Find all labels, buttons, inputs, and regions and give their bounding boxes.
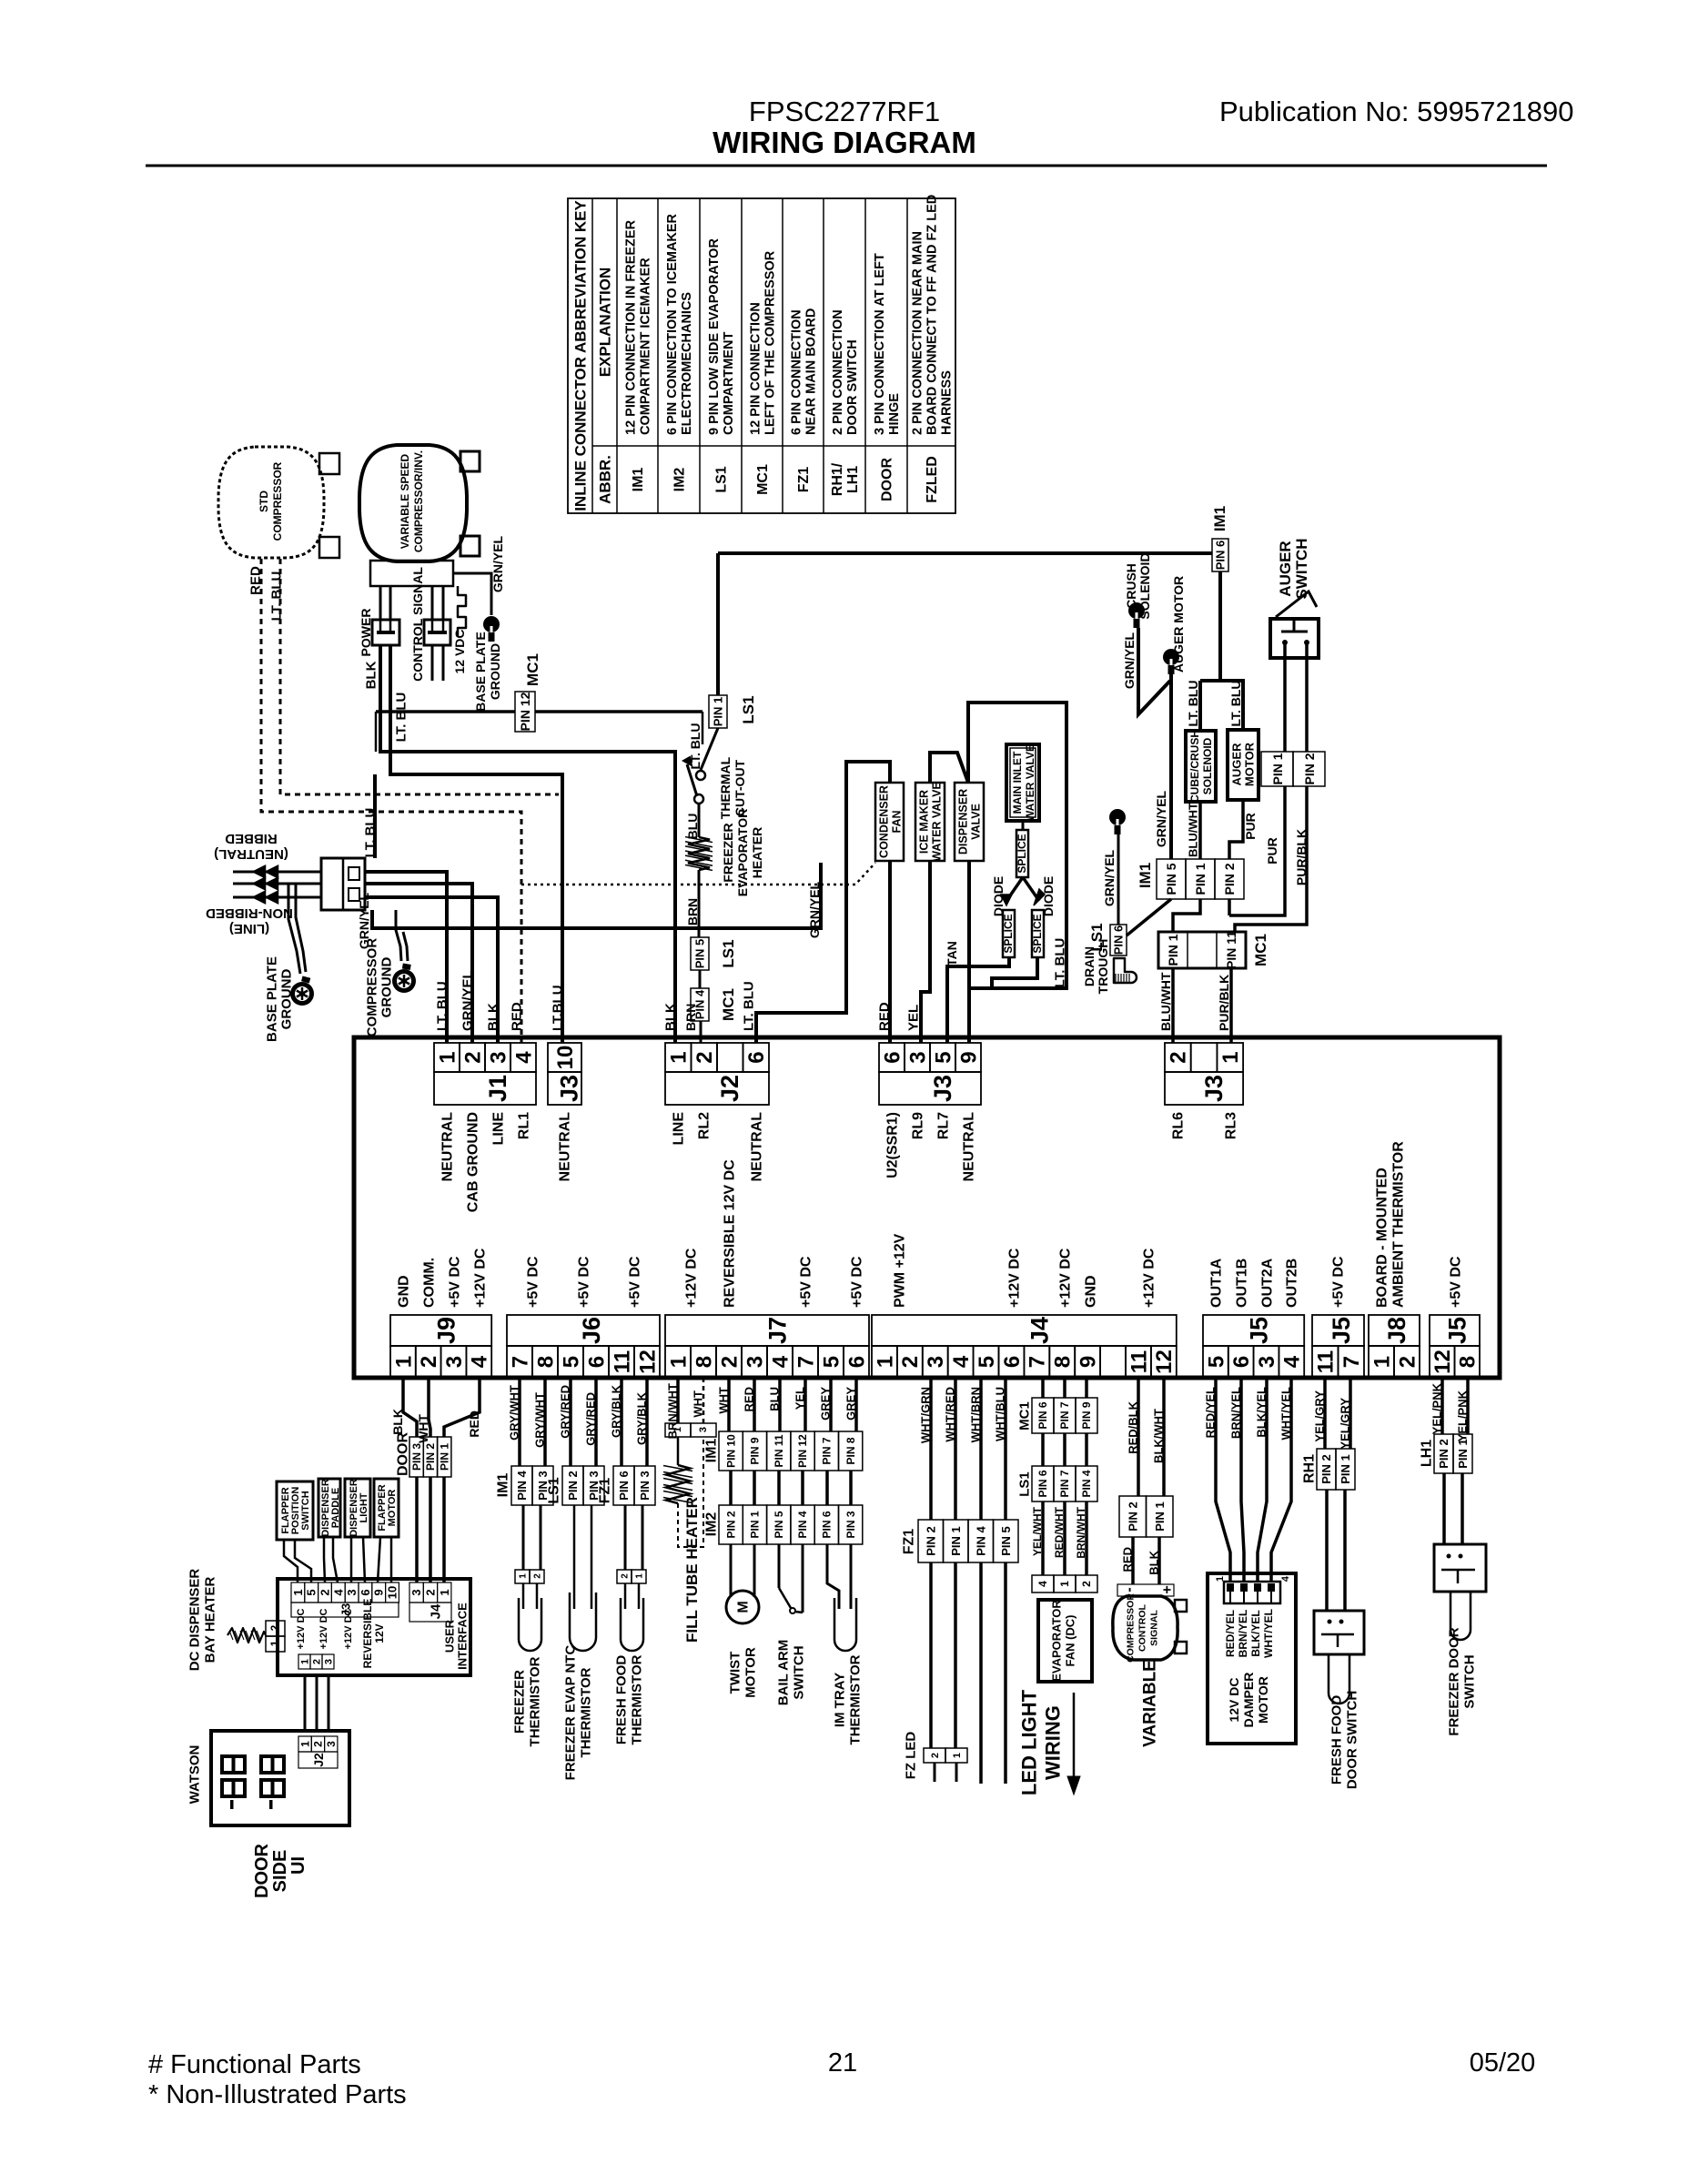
- svg-text:FPSC2277RF1: FPSC2277RF1: [749, 96, 940, 127]
- wires IM1 to IM2: [729, 1471, 733, 1505]
- svg-text:BAY HEATER: BAY HEATER: [202, 1576, 217, 1663]
- connector J3 (pin 10): [548, 1043, 581, 1072]
- wires J7 to IM1 connector: [727, 1378, 731, 1431]
- svg-text:MC1: MC1: [524, 653, 541, 686]
- wire WHT J7 pin8 (dashed): [702, 1378, 705, 1423]
- wire PUR motor to IM1 pin 2: [1229, 800, 1243, 859]
- svg-text:BASE PLATE: BASE PLATE: [264, 956, 279, 1042]
- wire RED from STD compressor (dashed): [261, 559, 521, 1043]
- svg-text:DOOR SWITCH: DOOR SWITCH: [1344, 1691, 1359, 1789]
- svg-text:PIN 6: PIN 6: [1112, 925, 1126, 955]
- MC1 connector (PIN 6, PIN 7, PIN 9): [1032, 1398, 1054, 1433]
- svg-text:6: 6: [359, 1589, 372, 1595]
- svg-text:12V DC: 12V DC: [1227, 1677, 1241, 1722]
- svg-text:LS1: LS1: [720, 939, 737, 967]
- svg-text:+: +: [1160, 1585, 1176, 1593]
- svg-text:2: 2: [318, 1589, 332, 1595]
- svg-text:7: 7: [508, 1356, 532, 1368]
- svg-text:7: 7: [793, 1356, 818, 1368]
- auger switch PIN 1 / PIN 2 connector: [1261, 752, 1293, 786]
- svg-text:GND: GND: [397, 1275, 412, 1308]
- WATSON 7-segment display: [222, 1756, 245, 1773]
- svg-text:AUGER MOTOR: AUGER MOTOR: [1171, 576, 1186, 672]
- thermal cut-out switch: [696, 771, 705, 780]
- wire LT. BLU split to solenoid and motor: [1218, 571, 1222, 681]
- FZ1 connector (PIN 2, PIN 1, PIN 4, PIN 5): [918, 1520, 944, 1562]
- wire GRY/WHT pair to IM1: [518, 1378, 521, 1466]
- svg-text:6: 6: [1229, 1356, 1254, 1368]
- svg-text:BOARD - MOUNTED: BOARD - MOUNTED: [1375, 1168, 1390, 1308]
- svg-text:PIN 9: PIN 9: [749, 1437, 762, 1464]
- svg-text:BRN/YEL: BRN/YEL: [1237, 1610, 1249, 1658]
- wire IM1 pin1 to MC1 pin1: [1173, 899, 1200, 932]
- diagonal wire LS1 PIN6 to IM1 PIN5: [1127, 899, 1171, 935]
- svg-text:GROUND: GROUND: [488, 643, 502, 700]
- svg-text:J2: J2: [311, 1753, 326, 1767]
- wires LH1 to freezer door switch: [1442, 1473, 1446, 1544]
- svg-text:3: 3: [743, 1356, 767, 1368]
- table: inline connector abbreviation key frame: [568, 198, 955, 513]
- svg-text:IM1: IM1: [704, 1439, 720, 1463]
- CONTROL SIGNAL open wire stubs: [431, 645, 434, 681]
- svg-text:WIRING DIAGRAM: WIRING DIAGRAM: [713, 126, 976, 159]
- bail arm switch wires: [778, 1544, 781, 1588]
- svg-text:1: 1: [666, 1356, 691, 1368]
- svg-text:YEL/GRY: YEL/GRY: [1313, 1390, 1327, 1442]
- svg-text:RED/YEL: RED/YEL: [1204, 1387, 1218, 1438]
- svg-text:GRY/BLK: GRY/BLK: [610, 1384, 623, 1438]
- IM1 PIN 6 inline connector: [1212, 539, 1228, 571]
- svg-text:J9: J9: [433, 1317, 460, 1344]
- svg-text:4: 4: [1280, 1355, 1305, 1368]
- svg-text:YEL/WHT: YEL/WHT: [1031, 1506, 1044, 1556]
- svg-text:WHT/GRN: WHT/GRN: [919, 1387, 933, 1443]
- IM1 connector (PIN 4, PIN 3): [511, 1466, 532, 1505]
- svg-text:PIN 3: PIN 3: [410, 1443, 423, 1471]
- svg-text:FILL TUBE HEATER: FILL TUBE HEATER: [683, 1497, 701, 1643]
- wires J5 to damper motor: [1216, 1378, 1230, 1582]
- svg-text:MC1: MC1: [720, 988, 737, 1021]
- wire LT. BLU from POWER to J3 pin 10: [390, 645, 562, 1043]
- svg-text:CUT-OUT: CUT-OUT: [733, 759, 747, 816]
- svg-text:LEFT OF THE COMPRESSOR: LEFT OF THE COMPRESSOR: [763, 250, 778, 435]
- svg-text:PIN 1: PIN 1: [1166, 934, 1180, 966]
- svg-text:PIN 4: PIN 4: [796, 1511, 809, 1538]
- wire BLK from POWER to J2 pin 1: [380, 645, 675, 1043]
- svg-text:GRN/YEL: GRN/YEL: [807, 881, 822, 938]
- svg-text:PIN 6: PIN 6: [1214, 541, 1228, 571]
- svg-text:THERMISTOR: THERMISTOR: [629, 1654, 644, 1744]
- svg-text:1: 1: [298, 1741, 311, 1747]
- svg-text:J2: J2: [716, 1075, 743, 1102]
- svg-text:9: 9: [372, 1589, 386, 1595]
- svg-text:MC1: MC1: [755, 464, 771, 495]
- svg-text:WIRING: WIRING: [1042, 1705, 1065, 1780]
- svg-text:PIN 1: PIN 1: [712, 697, 725, 727]
- svg-text:5: 5: [975, 1356, 999, 1368]
- flapper wires to UI J3: [284, 1540, 298, 1582]
- svg-text:RL1: RL1: [517, 1112, 532, 1139]
- svg-text:PUR: PUR: [1243, 813, 1258, 840]
- svg-text:1: 1: [291, 1589, 305, 1595]
- svg-text:IM1: IM1: [1211, 506, 1228, 531]
- svg-text:2: 2: [417, 1356, 441, 1368]
- svg-text:SOLENOID: SOLENOID: [1137, 552, 1152, 619]
- svg-text:1: 1: [1370, 1356, 1394, 1368]
- svg-text:6: 6: [1000, 1356, 1025, 1368]
- wires RED/BLK to terminal bar: [1131, 1537, 1135, 1584]
- DOOR connector (pins 3,2,1): [409, 1437, 423, 1477]
- svg-text:2: 2: [692, 1051, 717, 1063]
- svg-text:RED: RED: [876, 1002, 892, 1031]
- svg-text:GRY/BLK: GRY/BLK: [635, 1391, 649, 1445]
- wire GRY/RED pair to LS1: [569, 1378, 572, 1466]
- LS1 PIN 6 inline connector: [1110, 925, 1127, 955]
- svg-text:6: 6: [584, 1356, 609, 1368]
- svg-text:LS1: LS1: [714, 466, 730, 492]
- svg-text:LS1: LS1: [1016, 1471, 1032, 1497]
- compressor ground ring: [392, 969, 416, 993]
- svg-text:MOTOR: MOTOR: [387, 1490, 398, 1527]
- svg-text:NON-RIBBED: NON-RIBBED: [206, 905, 293, 921]
- svg-text:DOOR SWITCH: DOOR SWITCH: [845, 339, 860, 435]
- svg-text:GRN/YEL: GRN/YEL: [1102, 849, 1117, 906]
- splice right: [1032, 910, 1044, 957]
- svg-text:PIN 11: PIN 11: [773, 1434, 785, 1467]
- svg-text:J3: J3: [929, 1075, 956, 1102]
- svg-text:J3: J3: [555, 1075, 582, 1102]
- svg-text:LS1: LS1: [547, 1477, 562, 1503]
- connector J6 (pins 7,8,5,6,11,12): [507, 1315, 660, 1346]
- svg-text:+5V DC: +5V DC: [799, 1256, 814, 1308]
- svg-text:* Non-Illustrated Parts: * Non-Illustrated Parts: [148, 2080, 407, 2109]
- dispenser valve box: [955, 783, 984, 861]
- freezer evap thermistor bulb: [573, 1505, 576, 1609]
- svg-text:8: 8: [1456, 1356, 1481, 1368]
- svg-text:GRY/WHT: GRY/WHT: [533, 1392, 547, 1448]
- svg-text:1: 1: [1058, 1581, 1071, 1587]
- dotted ground bus: [521, 863, 875, 885]
- splice (main inlet): [1022, 821, 1025, 830]
- svg-text:IM1: IM1: [1137, 863, 1154, 888]
- svg-text:+5V DC: +5V DC: [1331, 1256, 1347, 1308]
- svg-text:9: 9: [956, 1051, 981, 1063]
- CONTROL SIGNAL inline connector: [424, 620, 450, 645]
- svg-text:3: 3: [409, 1589, 423, 1595]
- svg-text:PIN 2: PIN 2: [1319, 1454, 1333, 1484]
- svg-text:PIN 2: PIN 2: [1302, 753, 1317, 784]
- svg-text:PIN 2: PIN 2: [1222, 863, 1237, 895]
- ice maker valve return YEL: [921, 861, 930, 1043]
- svg-text:THERMISTOR: THERMISTOR: [578, 1667, 593, 1757]
- svg-text:CAB GROUND: CAB GROUND: [466, 1112, 481, 1212]
- svg-text:7: 7: [1339, 1356, 1364, 1368]
- svg-text:GRN/YEL: GRN/YEL: [460, 970, 475, 1031]
- svg-text:RL7: RL7: [936, 1112, 952, 1139]
- twist motor wires: [730, 1544, 733, 1597]
- freezer thermistor plug: [522, 1505, 525, 1570]
- svg-text:WHT/YEL: WHT/YEL: [1262, 1609, 1275, 1658]
- svg-text:J7: J7: [764, 1317, 792, 1344]
- svg-text:BLK: BLK: [662, 1003, 678, 1031]
- svg-text:DAMPER: DAMPER: [1241, 1673, 1256, 1728]
- svg-text:TROUGH: TROUGH: [1096, 939, 1110, 995]
- evaporator fan box: [1038, 1600, 1092, 1682]
- svg-text:MC1: MC1: [1016, 1401, 1032, 1431]
- svg-text:DOOR: DOOR: [252, 1843, 272, 1898]
- svg-text:PIN 6: PIN 6: [821, 1511, 834, 1538]
- svg-text:PIN 1: PIN 1: [749, 1511, 762, 1538]
- svg-text:1: 1: [667, 1051, 692, 1063]
- LS1 PIN 5 inline connector: [691, 937, 709, 970]
- IM1 connector (pins 5,1,2): [1157, 859, 1186, 899]
- svg-text:DC DISPENSER: DC DISPENSER: [187, 1569, 202, 1672]
- svg-text:PUR: PUR: [1265, 837, 1279, 864]
- svg-text:VARIABLE: VARIABLE: [1141, 1660, 1160, 1747]
- svg-text:2: 2: [1080, 1581, 1093, 1587]
- svg-text:BLK: BLK: [390, 1409, 405, 1435]
- svg-text:6 PIN CONNECTION TO ICEMAKER: 6 PIN CONNECTION TO ICEMAKER: [665, 213, 680, 435]
- svg-text:COMPRESSOR: COMPRESSOR: [364, 938, 379, 1037]
- svg-text:9 PIN LOW SIDE EVAPORATOR: 9 PIN LOW SIDE EVAPORATOR: [707, 238, 722, 435]
- IM1 connector (pins 10,9,11,12,7,8): [719, 1431, 743, 1471]
- svg-text:FREEZER DOOR: FREEZER DOOR: [1446, 1627, 1461, 1735]
- twist motor: [726, 1591, 759, 1623]
- svg-text:MOTOR: MOTOR: [1256, 1676, 1270, 1724]
- freezer thermistor bulb: [522, 1583, 525, 1609]
- freezer door switch: [1434, 1544, 1486, 1592]
- bail arm switch: [779, 1588, 791, 1608]
- svg-text:COMPRESSOR/INV.: COMPRESSOR/INV.: [412, 450, 425, 552]
- svg-text:PIN 1: PIN 1: [1339, 1454, 1352, 1484]
- svg-text:YEL: YEL: [905, 1005, 921, 1031]
- power plug body: [321, 858, 365, 910]
- wire IM1 pin2 to auger PUR: [1228, 899, 1231, 915]
- cube/crush solenoid box: [1186, 731, 1216, 802]
- svg-text:OUT2A: OUT2A: [1260, 1258, 1276, 1308]
- svg-text:DOOR: DOOR: [396, 1432, 411, 1476]
- connector J2 (pins 1,2,6): [665, 1043, 692, 1072]
- svg-text:IM2: IM2: [704, 1512, 720, 1537]
- svg-text:LT. BLU: LT. BLU: [1228, 680, 1243, 726]
- condenser fan return wire RED: [888, 861, 892, 1043]
- svg-text:PIN 7: PIN 7: [1058, 1401, 1071, 1429]
- svg-text:FREEZER EVAP NTC: FREEZER EVAP NTC: [562, 1645, 578, 1781]
- svg-text:ICE MAKER: ICE MAKER: [917, 790, 930, 854]
- svg-text:PIN 2: PIN 2: [1437, 1439, 1450, 1469]
- svg-text:SWITCH: SWITCH: [300, 1491, 311, 1530]
- svg-text:BAIL ARM: BAIL ARM: [775, 1640, 791, 1706]
- svg-text:PIN 2: PIN 2: [724, 1511, 737, 1538]
- wire BLU/WHT solenoid to IM1 pin 1: [1198, 802, 1202, 859]
- FZ LED stubs: [934, 1763, 936, 1782]
- svg-text:ABBR.: ABBR.: [596, 455, 613, 504]
- connector J7 (pins 1,8,2,3,4,7,5,6): [665, 1315, 869, 1346]
- svg-text:CONTROL: CONTROL: [1137, 1603, 1148, 1651]
- svg-text:BLK: BLK: [485, 1003, 500, 1031]
- svg-text:WHT/BLU: WHT/BLU: [994, 1387, 1007, 1441]
- svg-text:12: 12: [1152, 1350, 1177, 1374]
- fresh food thermistor plug: [624, 1505, 627, 1570]
- wire LT. BLU LS1 bus: [718, 551, 1218, 555]
- svg-text:PUR/BLK: PUR/BLK: [1217, 975, 1231, 1031]
- svg-text:PUR/BLK: PUR/BLK: [1294, 829, 1309, 885]
- svg-text:RED: RED: [248, 566, 263, 595]
- svg-text:PIN 6: PIN 6: [1036, 1401, 1049, 1429]
- diode pair from splice: [1006, 877, 1023, 901]
- svg-text:LT. BLU: LT. BLU: [1052, 938, 1067, 988]
- svg-text:THERMISTOR: THERMISTOR: [527, 1656, 542, 1746]
- svg-text:RED/BLK: RED/BLK: [1127, 1400, 1140, 1453]
- svg-text:RED/WHT: RED/WHT: [1053, 1506, 1066, 1558]
- svg-text:PIN 3: PIN 3: [638, 1471, 652, 1501]
- svg-text:2: 2: [898, 1356, 923, 1368]
- svg-text:11: 11: [1127, 1350, 1151, 1373]
- svg-text:CUBE/CRUSH: CUBE/CRUSH: [1188, 730, 1201, 803]
- dispenser paddle box: [318, 1479, 340, 1537]
- svg-text:FZ1: FZ1: [598, 1478, 613, 1504]
- connector J4 (pins 1-12): [872, 1315, 1177, 1346]
- wire PUR from auger switch to IM1 pin 2: [1229, 786, 1285, 915]
- svg-text:THERMISTOR: THERMISTOR: [847, 1654, 863, 1744]
- svg-text:3: 3: [345, 1589, 359, 1595]
- svg-text:2: 2: [1167, 1051, 1191, 1063]
- svg-text:J1: J1: [484, 1075, 511, 1102]
- auger motor ground ring: [1163, 649, 1179, 665]
- svg-text:3: 3: [1255, 1356, 1279, 1368]
- wire BLK J9 pin1 to DOOR: [403, 1378, 417, 1437]
- svg-text:9: 9: [1076, 1356, 1101, 1368]
- svg-text:05/20: 05/20: [1470, 2048, 1536, 2078]
- wire pair POWER from inverter: [379, 586, 382, 620]
- svg-text:BLK/YEL: BLK/YEL: [1249, 1610, 1262, 1656]
- drain trough symbol: [1114, 958, 1137, 983]
- svg-text:FZ1: FZ1: [902, 1529, 917, 1555]
- svg-text:1: 1: [873, 1356, 897, 1368]
- svg-text:NEUTRAL: NEUTRAL: [962, 1112, 977, 1182]
- svg-text:2: 2: [424, 1589, 438, 1595]
- svg-text:PIN 6: PIN 6: [1036, 1470, 1049, 1497]
- svg-text:BLK/WHT: BLK/WHT: [1152, 1409, 1166, 1463]
- variable speed compressor terminal lower: [460, 536, 480, 556]
- svg-text:2: 2: [621, 1573, 631, 1579]
- wire BRN to J2 pin 2: [700, 1021, 702, 1043]
- wire BLU/WHT MC1 to J3 pin 2: [1171, 968, 1175, 1043]
- svg-text:BRN/WHT: BRN/WHT: [1075, 1506, 1087, 1558]
- svg-text:MAIN INLET: MAIN INLET: [1011, 751, 1024, 814]
- svg-text:PIN 2: PIN 2: [566, 1471, 580, 1501]
- svg-text:+12V DC: +12V DC: [343, 1608, 354, 1649]
- STD compressor terminal lower: [319, 537, 339, 558]
- FZ LED connector: [924, 1748, 945, 1763]
- svg-text:4: 4: [949, 1355, 974, 1368]
- svg-text:SWITCH: SWITCH: [1293, 538, 1310, 599]
- wires J5 11,7 to RH1: [1323, 1378, 1327, 1449]
- 12 VDC square-wave symbol: [458, 586, 466, 637]
- svg-text:GREY: GREY: [844, 1387, 858, 1421]
- svg-text:M: M: [736, 1601, 752, 1613]
- svg-text:12: 12: [635, 1350, 660, 1374]
- svg-text:COMPRESSOR: COMPRESSOR: [271, 461, 284, 541]
- svg-text:+5V DC: +5V DC: [850, 1256, 865, 1308]
- svg-text:BRN: BRN: [683, 1004, 698, 1031]
- svg-text:GRY/WHT: GRY/WHT: [508, 1385, 521, 1441]
- svg-text:PIN 11: PIN 11: [1224, 931, 1238, 969]
- svg-text:PIN 5: PIN 5: [1164, 863, 1178, 895]
- wire down to LS1 PIN 6: [1117, 834, 1120, 925]
- svg-text:J8: J8: [1383, 1317, 1410, 1344]
- fresh food thermistor bulb: [624, 1583, 627, 1609]
- svg-text:AUGER: AUGER: [1230, 743, 1244, 786]
- condenser fan box: [875, 783, 904, 861]
- svg-text:OUT1B: OUT1B: [1235, 1259, 1250, 1308]
- svg-text:EXPLANATION: EXPLANATION: [596, 268, 613, 378]
- svg-text:FAN: FAN: [890, 811, 903, 834]
- svg-text:UI: UI: [288, 1856, 308, 1875]
- svg-text:2: 2: [312, 1741, 325, 1747]
- wire GRY/BLK pair to FZ1: [620, 1378, 623, 1466]
- svg-text:RED: RED: [509, 1002, 524, 1031]
- svg-text:3: 3: [905, 1051, 930, 1063]
- wires LS1 to evaporator fan plug: [1041, 1501, 1045, 1575]
- svg-text:5: 5: [1204, 1356, 1228, 1368]
- svg-text:3: 3: [486, 1051, 510, 1063]
- svg-text:LT. BLU: LT. BLU: [1186, 680, 1200, 726]
- svg-text:COMPARTMENT: COMPARTMENT: [722, 332, 736, 435]
- UI J4 connector (pins 3,2,1): [409, 1582, 423, 1603]
- svg-text:10: 10: [386, 1586, 399, 1599]
- compressor ground wires: [396, 910, 401, 961]
- LED light wires: [979, 1562, 983, 1784]
- svg-text:POWER: POWER: [359, 609, 373, 657]
- svg-text:BRN: BRN: [685, 898, 700, 925]
- svg-text:MOTOR: MOTOR: [743, 1647, 758, 1698]
- svg-text:4: 4: [511, 1051, 536, 1064]
- svg-text:2 PIN CONNECTION NEAR MAIN: 2 PIN CONNECTION NEAR MAIN: [911, 231, 925, 435]
- wire BRN/WHT J7 pin1: [676, 1378, 680, 1423]
- svg-text:J5: J5: [1328, 1317, 1355, 1344]
- svg-text:12V: 12V: [373, 1623, 386, 1643]
- fill tube heater coil: [677, 1437, 680, 1465]
- inverter box: [370, 561, 453, 586]
- svg-text:4: 4: [331, 1589, 345, 1596]
- svg-text:2: 2: [717, 1356, 742, 1368]
- base plate ground (lower) wires: [288, 884, 300, 974]
- svg-text:1: 1: [268, 1640, 281, 1646]
- svg-text:PIN 2: PIN 2: [924, 1526, 937, 1556]
- wire PUR/BLK MC1 to J3 pin 1: [1229, 968, 1233, 1043]
- svg-text:BLK: BLK: [1147, 1550, 1161, 1574]
- svg-text:PIN 3: PIN 3: [844, 1511, 857, 1538]
- splice left: [1003, 910, 1015, 957]
- svg-text:TAN: TAN: [945, 941, 959, 966]
- compressor control +/- bar: [1117, 1584, 1174, 1596]
- svg-text:WHT/BRN: WHT/BRN: [969, 1387, 983, 1442]
- svg-text:21: 21: [828, 2048, 857, 2078]
- svg-text:LT. BLU: LT. BLU: [362, 808, 378, 858]
- svg-text:BLU/WHT: BLU/WHT: [1158, 972, 1173, 1031]
- svg-text:+12V DC: +12V DC: [473, 1248, 489, 1308]
- svg-text:PIN 1: PIN 1: [438, 1443, 450, 1471]
- svg-text:4: 4: [1280, 1575, 1291, 1582]
- LS1 PIN 1 inline connector: [709, 695, 727, 728]
- svg-text:PIN 1: PIN 1: [1193, 863, 1208, 895]
- MC1 PIN 4 inline connector: [699, 970, 702, 988]
- svg-text:GRN/YEL: GRN/YEL: [1122, 632, 1137, 689]
- freezer door switch bulb: [1450, 1592, 1471, 1640]
- svg-text:LED LIGHT: LED LIGHT: [1018, 1689, 1041, 1795]
- main control board outline: [354, 1037, 1500, 1378]
